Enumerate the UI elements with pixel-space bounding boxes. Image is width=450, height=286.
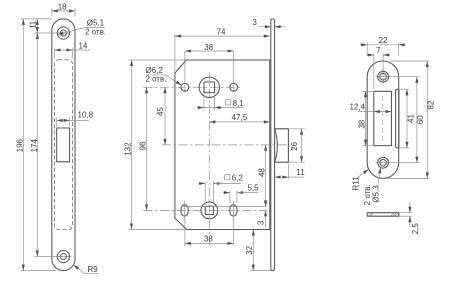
dimension 60 (416, 77, 418, 163)
screw hole bottom (378, 157, 389, 168)
svg-text:R11: R11 (351, 176, 360, 191)
middle view: lock body side (124, 18, 305, 271)
dimension 45 (164, 87, 166, 145)
bottom boss circle (201, 202, 218, 219)
dimension 48 (265, 145, 267, 207)
left view: faceplate front (15, 2, 106, 274)
svg-text:3: 3 (257, 220, 266, 225)
dimension 18 (52, 10, 75, 12)
dimension 38 bottom (184, 218, 186, 246)
slot upper reference line (181, 206, 267, 208)
dimension square 6,2 (204, 182, 206, 205)
svg-text:60: 60 (416, 115, 425, 124)
lock body outline with chamfered left corners (175, 60, 270, 230)
svg-text:48: 48 (257, 168, 266, 177)
dimension 32 (250, 270, 270, 272)
dimension 196 (22, 19, 24, 271)
latch bevel arc (275, 129, 278, 162)
svg-text:2,5: 2,5 (411, 223, 420, 235)
dimension 11 latch throw (287, 164, 289, 179)
dimension 26 latch height (288, 128, 304, 130)
svg-text:12,4: 12,4 (350, 102, 366, 111)
dimension 74 (174, 34, 176, 71)
strike plate outline (367, 61, 399, 178)
spindle boss circle (199, 77, 219, 97)
screw hole top (378, 71, 389, 82)
slot right (230, 205, 237, 216)
extension lines bottom (20, 270, 56, 272)
dimension 132 (129, 59, 187, 61)
dimension 7 (373, 54, 375, 90)
svg-text:18: 18 (58, 2, 67, 11)
dimension 3 slot offset (265, 200, 267, 207)
dimension 5,5 (229, 191, 231, 203)
dimension 14 (53, 48, 55, 59)
faceplate edge-on (271, 19, 275, 271)
bottom hole centerline (35, 256, 72, 258)
svg-text:26: 26 (290, 141, 299, 150)
right view: strike plate (350, 36, 436, 234)
dimension 41 (399, 88, 410, 90)
dimension 96 (146, 87, 148, 210)
svg-text:45: 45 (156, 107, 165, 116)
svg-text:96: 96 (139, 141, 148, 150)
hole D6,2 left (181, 83, 189, 91)
svg-text:32: 32 (245, 245, 254, 254)
latch centerline (162, 144, 290, 146)
bottom row centerline (144, 209, 268, 211)
latch opening (374, 91, 392, 145)
top hole centerline (35, 32, 72, 34)
hole D6,2 right (230, 83, 238, 91)
square hole 6,2 (205, 206, 213, 214)
svg-text:7: 7 (376, 46, 381, 55)
dimension 82 (390, 60, 430, 62)
svg-text:74: 74 (217, 27, 226, 36)
dimension 11 (36, 19, 38, 33)
svg-text:5,5: 5,5 (247, 183, 259, 192)
svg-text:8,1: 8,1 (233, 99, 245, 108)
dimension 47,5 (209, 121, 269, 123)
hidden lock body (dashed) (54, 60, 72, 230)
svg-text:2 отв.: 2 отв. (363, 184, 372, 205)
svg-text:132: 132 (124, 142, 133, 156)
dimension 2,5 (400, 212, 413, 214)
svg-text:38: 38 (204, 235, 213, 244)
svg-text:2 отв.: 2 отв. (145, 75, 166, 84)
bent lip (396, 89, 399, 148)
svg-text:38: 38 (204, 43, 213, 52)
latch opening (57, 128, 70, 162)
opening centerline (382, 96, 384, 141)
svg-text:41: 41 (406, 114, 415, 123)
svg-text:10,8: 10,8 (78, 111, 94, 120)
svg-text:22: 22 (379, 36, 388, 45)
svg-text:3: 3 (252, 18, 257, 27)
svg-text:Ø6,2: Ø6,2 (146, 66, 164, 75)
bottom hole centerline (376, 162, 420, 164)
countersink marks left (368, 213, 373, 216)
faceplate outline (52, 19, 75, 271)
dimension 38 top (185, 50, 234, 52)
svg-text:11: 11 (296, 168, 305, 177)
dimension square 8,1 (203, 94, 205, 110)
svg-text:47,5: 47,5 (232, 113, 248, 122)
top hole centerline (376, 76, 420, 78)
spindle centerline vertical (208, 72, 210, 246)
dimension 10,8 (56, 118, 58, 127)
svg-text:174: 174 (30, 138, 39, 152)
svg-text:2 отв.: 2 отв. (85, 28, 106, 37)
svg-text:6,2: 6,2 (232, 174, 244, 183)
dimension 12,4 (358, 111, 392, 113)
extension through top holes (184, 51, 186, 92)
dimension 174 (36, 33, 38, 257)
dimension 38 opening height (363, 90, 375, 92)
dimension 22 (366, 43, 368, 56)
svg-text:Ø5,3: Ø5,3 (371, 185, 380, 203)
svg-text:38: 38 (357, 119, 366, 128)
svg-text:14: 14 (78, 41, 87, 50)
screw hole bottom (57, 250, 69, 262)
svg-text:196: 196 (15, 138, 24, 152)
slot left (181, 205, 188, 216)
strike plate side view (367, 213, 399, 217)
svg-text:82: 82 (427, 100, 436, 109)
screw hole top (57, 27, 69, 39)
countersink marks right (390, 213, 397, 216)
svg-text:Ø5,1: Ø5,1 (87, 18, 105, 27)
latch bolt (275, 129, 289, 162)
svg-text:11: 11 (28, 20, 37, 29)
svg-text:R9: R9 (87, 265, 98, 274)
extension lines top (51, 8, 53, 16)
top row centerline (144, 86, 241, 88)
dimension 3 faceplate thickness (258, 26, 271, 28)
square hole 8,1 (204, 82, 215, 93)
